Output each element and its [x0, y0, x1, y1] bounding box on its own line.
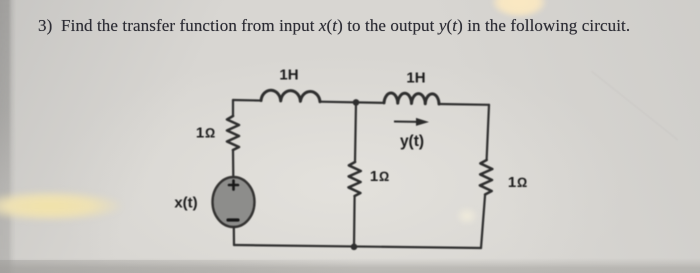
plus sign of source: [229, 181, 238, 190]
wire top rail right segment: [439, 103, 489, 106]
wire middle branch lower: [353, 196, 356, 247]
bottom dark band: [0, 258, 700, 273]
resistor R3 right 1ohm: [480, 160, 492, 195]
wire right branch upper: [487, 105, 489, 160]
small glare dot lower right of middle: [455, 206, 479, 226]
svg-text:1Ω: 1Ω: [370, 168, 390, 185]
resistor R1 left 1ohm: [227, 116, 239, 150]
inductor L2 1H: [384, 93, 439, 104]
wire left branch upper: [232, 100, 234, 116]
title text: [38, 16, 678, 36]
wire top rail mid segment: [320, 102, 384, 103]
wire bottom rail: [234, 245, 481, 248]
wire source to bottom rail: [233, 227, 235, 245]
wire top rail left segment: [233, 99, 261, 102]
wire middle branch upper: [355, 102, 356, 162]
svg-text:x(t): x(t): [174, 195, 197, 212]
faint diagonal scratch: [591, 71, 678, 140]
node dot top middle: [353, 99, 360, 106]
source V1 x(t) circle: [213, 177, 255, 227]
resistor R2 middle 1ohm: [349, 162, 361, 196]
inductor L1 1H: [261, 90, 320, 102]
svg-text:y(t): y(t): [400, 133, 424, 150]
minus sign of source: [228, 218, 238, 221]
wire right branch lower: [481, 195, 485, 249]
left dark edge strip: [0, 0, 16, 273]
svg-text:1Ω: 1Ω: [196, 125, 216, 142]
svg-text:1Ω: 1Ω: [508, 174, 528, 191]
top glare blob: [492, 0, 546, 17]
svg-text:1H: 1H: [279, 67, 298, 84]
node dot bottom middle: [351, 244, 358, 251]
wire left branch to source: [232, 150, 235, 177]
arrow for y(t): [394, 118, 429, 126]
yellow highlighter streak: [0, 188, 122, 224]
svg-text:1H: 1H: [406, 70, 425, 87]
